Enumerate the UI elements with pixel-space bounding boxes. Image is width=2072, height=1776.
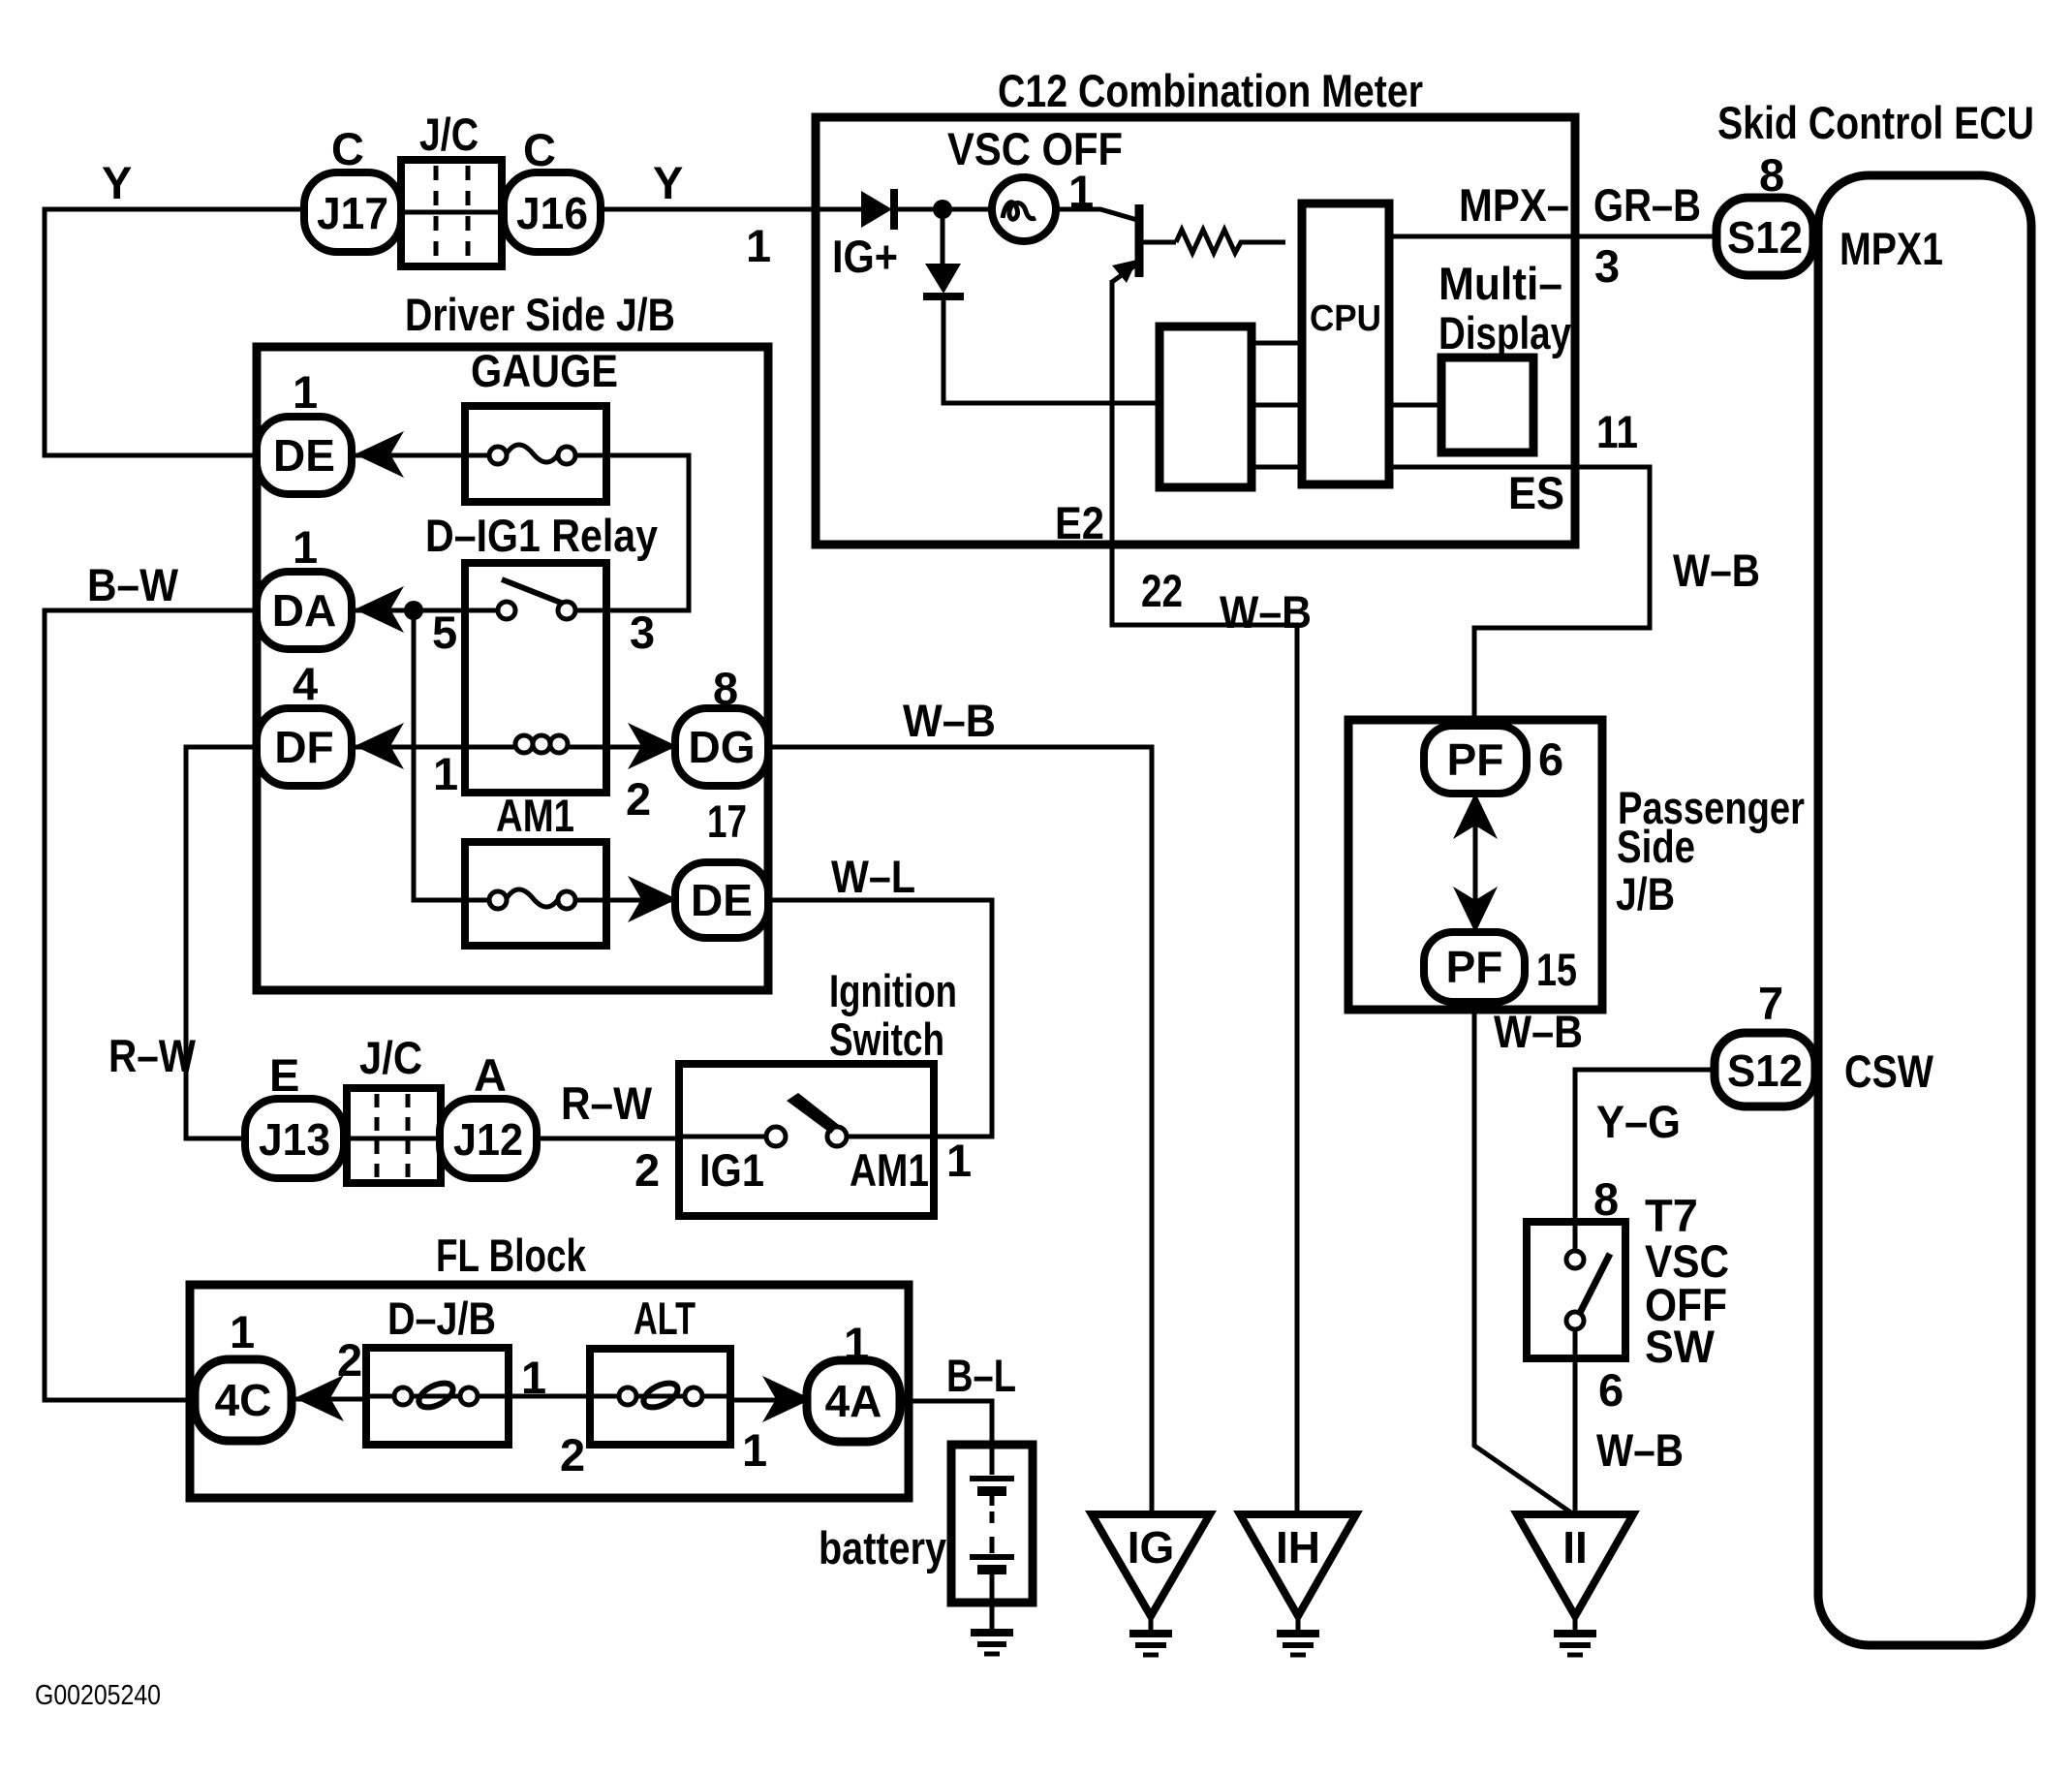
connector DE pin 1 (257, 417, 352, 494)
arrow into DF (355, 723, 404, 769)
svg-text:15: 15 (1536, 944, 1577, 995)
svg-text:AM1: AM1 (496, 790, 574, 841)
svg-text:IH: IH (1276, 1522, 1320, 1573)
label MPX1 (1840, 223, 1943, 274)
svg-text:Switch: Switch (829, 1013, 944, 1065)
label E2 (1055, 497, 1104, 548)
pin 2 label D-J/B (337, 1334, 362, 1386)
wire B-L 4A to battery (900, 1401, 992, 1448)
svg-text:W–B: W–B (1596, 1424, 1684, 1476)
svg-text:1: 1 (742, 1424, 767, 1476)
label W-B (PF wire) (1494, 1006, 1583, 1057)
pin 8 label T7 (1593, 1173, 1619, 1225)
fuse AM1 (465, 842, 606, 946)
svg-text:2: 2 (337, 1334, 362, 1386)
svg-text:Driver Side J/B: Driver Side J/B (405, 289, 675, 340)
figure number G00205240 (35, 1680, 161, 1711)
svg-text:E2: E2 (1055, 497, 1104, 548)
arrow into DE (355, 431, 404, 478)
label GAUGE (471, 345, 618, 396)
svg-text:J17: J17 (317, 188, 388, 238)
label R-W left (108, 1030, 197, 1081)
svg-text:2: 2 (634, 1144, 660, 1196)
wire PF15 to ground II (1474, 1010, 1575, 1515)
connector 4A (807, 1360, 900, 1442)
wire CSW S12 (1575, 1070, 1716, 1224)
svg-text:4C: 4C (215, 1375, 272, 1425)
pin 3 label (1594, 240, 1620, 292)
label B-L (946, 1350, 1016, 1401)
label D-IG1 Relay (425, 510, 658, 561)
connector DA pin 1 (257, 572, 352, 649)
wire D-J/B to ALT (509, 1394, 590, 1399)
pin 1 label lamp (1068, 166, 1094, 217)
svg-text:FL Block: FL Block (436, 1230, 587, 1281)
svg-text:CPU: CPU (1310, 298, 1381, 339)
svg-text:MPX–: MPX– (1459, 179, 1569, 231)
junction connector J/C (top) (401, 160, 502, 266)
label battery (819, 1522, 946, 1573)
relay pin 3 label (630, 607, 655, 658)
arrow into DE 17 (628, 876, 677, 922)
diode D2 to E2 (923, 214, 1161, 403)
relay pin 1 label (433, 748, 458, 799)
label AM1 ignition (850, 1144, 929, 1196)
junction dot relay pin5/AM1 (404, 601, 423, 620)
svg-text:II: II (1562, 1522, 1588, 1573)
svg-text:W–B: W–B (903, 695, 996, 746)
svg-text:Skid Control ECU: Skid Control ECU (1717, 97, 2034, 148)
svg-text:17: 17 (707, 795, 747, 847)
wire lamp to transistor (1056, 209, 1137, 220)
pin 1 label DA (293, 521, 318, 573)
junction connector J/C (bottom) (347, 1088, 441, 1183)
battery ground (971, 1603, 1013, 1654)
wire W-L DE17 to ignition switch (768, 900, 992, 1137)
label W-B (DG wire) (903, 695, 996, 746)
connector 4C (195, 1359, 292, 1441)
svg-text:SW: SW (1645, 1321, 1716, 1372)
svg-text:W–B: W–B (1494, 1006, 1583, 1057)
fuse GAUGE (465, 406, 606, 502)
svg-text:2: 2 (626, 773, 651, 825)
connector J13 (245, 1099, 344, 1178)
CPU block (1302, 203, 1389, 484)
pin 15 label PF (1536, 944, 1577, 995)
svg-text:battery: battery (819, 1522, 946, 1573)
svg-text:5: 5 (432, 607, 457, 658)
svg-text:GAUGE: GAUGE (471, 345, 618, 396)
connector PF pin 15 (1424, 932, 1525, 1002)
label W-B (ES wire) (1673, 545, 1760, 596)
label W-B (E2 wire) (1220, 586, 1312, 638)
svg-text:ES: ES (1508, 467, 1564, 518)
wires block to CPU (1252, 343, 1302, 467)
MPX wire (1389, 234, 1718, 239)
svg-text:C12 Combination Meter: C12 Combination Meter (998, 65, 1423, 116)
pin 8 label S12 (1759, 149, 1784, 201)
fusible link D-J/B (366, 1348, 509, 1445)
arrow into DG (628, 723, 677, 769)
wire DF to relay coil (352, 745, 465, 750)
relay pin 2 label (626, 773, 651, 825)
svg-text:AM1: AM1 (850, 1144, 929, 1196)
label ES (1508, 467, 1564, 518)
svg-text:B–L: B–L (946, 1350, 1016, 1401)
wire DE to GAUGE fuse (352, 453, 465, 458)
pin 22 label (1141, 565, 1183, 616)
svg-text:1: 1 (293, 366, 318, 418)
label AM1 (496, 790, 574, 841)
svg-text:B–W: B–W (87, 559, 179, 610)
label C above J16 (523, 124, 556, 175)
junction node after D1 (933, 200, 992, 219)
svg-text:Display: Display (1438, 307, 1571, 358)
label CSW (1844, 1045, 1934, 1097)
svg-text:Multi–: Multi– (1438, 258, 1562, 309)
wire relay coil to DG (606, 745, 677, 750)
label E above J13 (269, 1049, 299, 1101)
svg-text:6: 6 (1598, 1364, 1624, 1416)
svg-text:T7: T7 (1645, 1190, 1698, 1241)
wire GAUGE fuse to relay contact (606, 455, 689, 610)
arrow into 4A (762, 1376, 812, 1422)
wire DA to relay pin 5 (352, 608, 465, 613)
FL block box (190, 1285, 909, 1498)
svg-text:IG: IG (1128, 1522, 1175, 1573)
connector PF pin 6 (1424, 726, 1527, 794)
svg-text:1: 1 (746, 220, 771, 271)
wire 4C to D-J/B link (291, 1397, 366, 1402)
svg-text:J/C: J/C (419, 109, 479, 160)
label Y right (653, 157, 683, 208)
pin 17 label DE (707, 795, 747, 847)
label ALT (634, 1293, 696, 1344)
pin 6 label PF (1538, 733, 1563, 785)
svg-text:A: A (474, 1049, 507, 1101)
svg-text:DE: DE (273, 430, 335, 481)
relay D-IG1 (465, 563, 606, 793)
label J/C top (419, 109, 479, 160)
svg-text:1: 1 (946, 1135, 972, 1186)
combination meter C12 title (998, 65, 1423, 116)
svg-text:CSW: CSW (1844, 1045, 1934, 1097)
svg-text:4: 4 (293, 658, 318, 709)
ignition switch box (679, 1064, 934, 1216)
svg-text:Side: Side (1617, 821, 1695, 872)
svg-text:7: 7 (1758, 978, 1783, 1029)
svg-text:GR–B: GR–B (1593, 179, 1701, 231)
wire J12 to ignition switch (537, 1137, 681, 1141)
pin 1 label ALT (742, 1424, 767, 1476)
label W-B (T7 wire) (1596, 1424, 1684, 1476)
connector J12 (440, 1099, 537, 1178)
ES wire pin 11 (1389, 467, 1650, 728)
svg-text:8: 8 (1759, 149, 1784, 201)
svg-text:DA: DA (272, 585, 336, 636)
label B-W (87, 559, 179, 610)
ignition switch title (829, 965, 957, 1065)
Multi-Display block (1389, 358, 1533, 452)
label IG1 (699, 1144, 764, 1196)
svg-text:R–W: R–W (108, 1030, 197, 1081)
pin 2 label ALT (560, 1429, 585, 1480)
svg-text:1: 1 (230, 1306, 255, 1357)
svg-text:S12: S12 (1727, 212, 1803, 263)
combination meter C12 box (816, 117, 1575, 545)
bus line between PF connectors (1473, 794, 1478, 933)
ground IH (1240, 1514, 1356, 1655)
svg-text:J12: J12 (453, 1114, 523, 1165)
connector J16 (504, 172, 601, 252)
svg-text:2: 2 (560, 1429, 585, 1480)
VSC OFF label (947, 123, 1123, 174)
svg-text:W–L: W–L (831, 851, 915, 902)
driver side J/B title (405, 289, 675, 340)
svg-text:22: 22 (1141, 565, 1183, 616)
svg-text:G00205240: G00205240 (35, 1680, 161, 1711)
connector S12 pin 7 (1715, 1033, 1815, 1106)
wire AM1 fuse to DE pin 17 (606, 898, 677, 903)
connector DF pin 4 (257, 708, 352, 786)
label Y-G (1596, 1096, 1681, 1147)
svg-text:DF: DF (274, 722, 333, 772)
wire relay pin5 to AM1 fuse (414, 610, 465, 900)
svg-text:Ignition: Ignition (829, 965, 957, 1016)
resistor R1 (1176, 230, 1285, 253)
label Y left (102, 157, 132, 208)
wire Y (J16 to C12 IG+) (601, 207, 820, 212)
svg-text:11: 11 (1596, 406, 1638, 457)
svg-text:W–B: W–B (1673, 545, 1760, 596)
svg-text:C: C (331, 123, 364, 174)
pin 11 label (1596, 406, 1638, 457)
skid control ECU title (1717, 97, 2034, 148)
svg-text:1: 1 (293, 521, 318, 573)
fusible link ALT (590, 1349, 730, 1445)
connector DG pin 8 (675, 708, 768, 786)
svg-text:3: 3 (630, 607, 655, 658)
svg-text:MPX1: MPX1 (1840, 223, 1943, 274)
svg-text:3: 3 (1594, 240, 1620, 292)
svg-text:D–IG1 Relay: D–IG1 Relay (425, 510, 658, 561)
pin 7 label S12 (1758, 978, 1783, 1029)
label T7 VSC OFF SW (1645, 1190, 1729, 1372)
VSC OFF switch T7 (1527, 1222, 1625, 1358)
svg-text:6: 6 (1538, 733, 1563, 785)
svg-text:Y: Y (653, 157, 683, 208)
svg-text:Y–G: Y–G (1596, 1096, 1681, 1147)
svg-text:J16: J16 (516, 188, 588, 238)
svg-text:J13: J13 (259, 1114, 330, 1165)
VSC OFF indicator lamp (992, 177, 1056, 241)
label R-W (ignition) (561, 1077, 653, 1129)
pin 1 label 4C (230, 1306, 255, 1357)
FL block title (436, 1230, 587, 1281)
svg-text:J/C: J/C (359, 1032, 422, 1083)
wire ALT to 4A (730, 1398, 808, 1403)
svg-text:DE: DE (691, 875, 753, 925)
pin 8 label DG (713, 663, 738, 714)
svg-text:W–B: W–B (1220, 586, 1312, 638)
driver side J/B box (257, 347, 768, 990)
svg-text:C: C (523, 124, 556, 175)
label GR-B (1593, 179, 1701, 231)
svg-text:S12: S12 (1727, 1045, 1803, 1096)
svg-text:VSC OFF: VSC OFF (947, 123, 1123, 174)
svg-text:PF: PF (1446, 942, 1503, 992)
label D-J/B (387, 1293, 496, 1344)
svg-text:IG1: IG1 (699, 1144, 764, 1196)
pin 1 label ignition (946, 1135, 972, 1186)
emitter wire E2 pin 22 (1112, 280, 1297, 1514)
pin 1 label D-J/B (521, 1352, 546, 1403)
label W-L (831, 851, 915, 902)
label IG+ (832, 231, 898, 282)
relay pin 5 label (432, 607, 457, 658)
svg-text:4A: 4A (825, 1376, 882, 1426)
wire W-B DG to ground IG (768, 747, 1152, 1515)
label MPX- (1459, 179, 1569, 231)
svg-text:IG+: IG+ (832, 231, 898, 282)
arrow up PF (1453, 793, 1498, 839)
svg-text:E: E (269, 1049, 299, 1101)
wire T7 to ground II (1573, 1355, 1578, 1515)
pin 1 label DE (293, 366, 318, 418)
label C above J17 (331, 123, 364, 174)
label A above J12 (474, 1049, 507, 1101)
svg-text:1: 1 (433, 748, 458, 799)
svg-text:PF: PF (1447, 734, 1504, 785)
wire R-W DF to J13 (186, 747, 259, 1138)
pin 6 label T7 (1598, 1364, 1624, 1416)
Multi-Display label (1438, 258, 1571, 358)
label J/C bottom (359, 1032, 422, 1083)
passenger side J/B title (1616, 782, 1805, 919)
ground IG (1092, 1514, 1210, 1655)
connector S12 pin 8 (1716, 198, 1813, 275)
connector DE pin 17 (675, 862, 768, 938)
pin 2 label ignition (634, 1144, 660, 1196)
svg-text:D–J/B: D–J/B (387, 1293, 496, 1344)
passenger side J/B box (1348, 720, 1602, 1010)
svg-text:ALT: ALT (634, 1293, 696, 1344)
svg-text:R–W: R–W (561, 1077, 653, 1129)
wire B-W DA to 4C (45, 610, 259, 1400)
connector J17 (304, 172, 401, 252)
transistor Q1 (1112, 204, 1176, 283)
arrow down PF (1453, 887, 1498, 933)
svg-text:8: 8 (1593, 1173, 1619, 1225)
arrow into 4C (294, 1375, 344, 1421)
skid control ECU box (1818, 175, 2031, 1645)
arrow into DA (355, 586, 404, 633)
diode D1 IG+ (820, 189, 936, 230)
pin 4 label DF (293, 658, 318, 709)
svg-text:J/B: J/B (1616, 868, 1675, 919)
pin 1 label C12 (746, 220, 771, 271)
pin 1 label 4A (844, 1318, 869, 1369)
ground II (1517, 1514, 1633, 1655)
wire Y (J17 to DE pin 1) (45, 209, 304, 455)
svg-text:DG: DG (689, 722, 756, 772)
svg-text:Y: Y (102, 157, 132, 208)
interface block (1160, 327, 1252, 487)
battery (951, 1445, 1033, 1603)
